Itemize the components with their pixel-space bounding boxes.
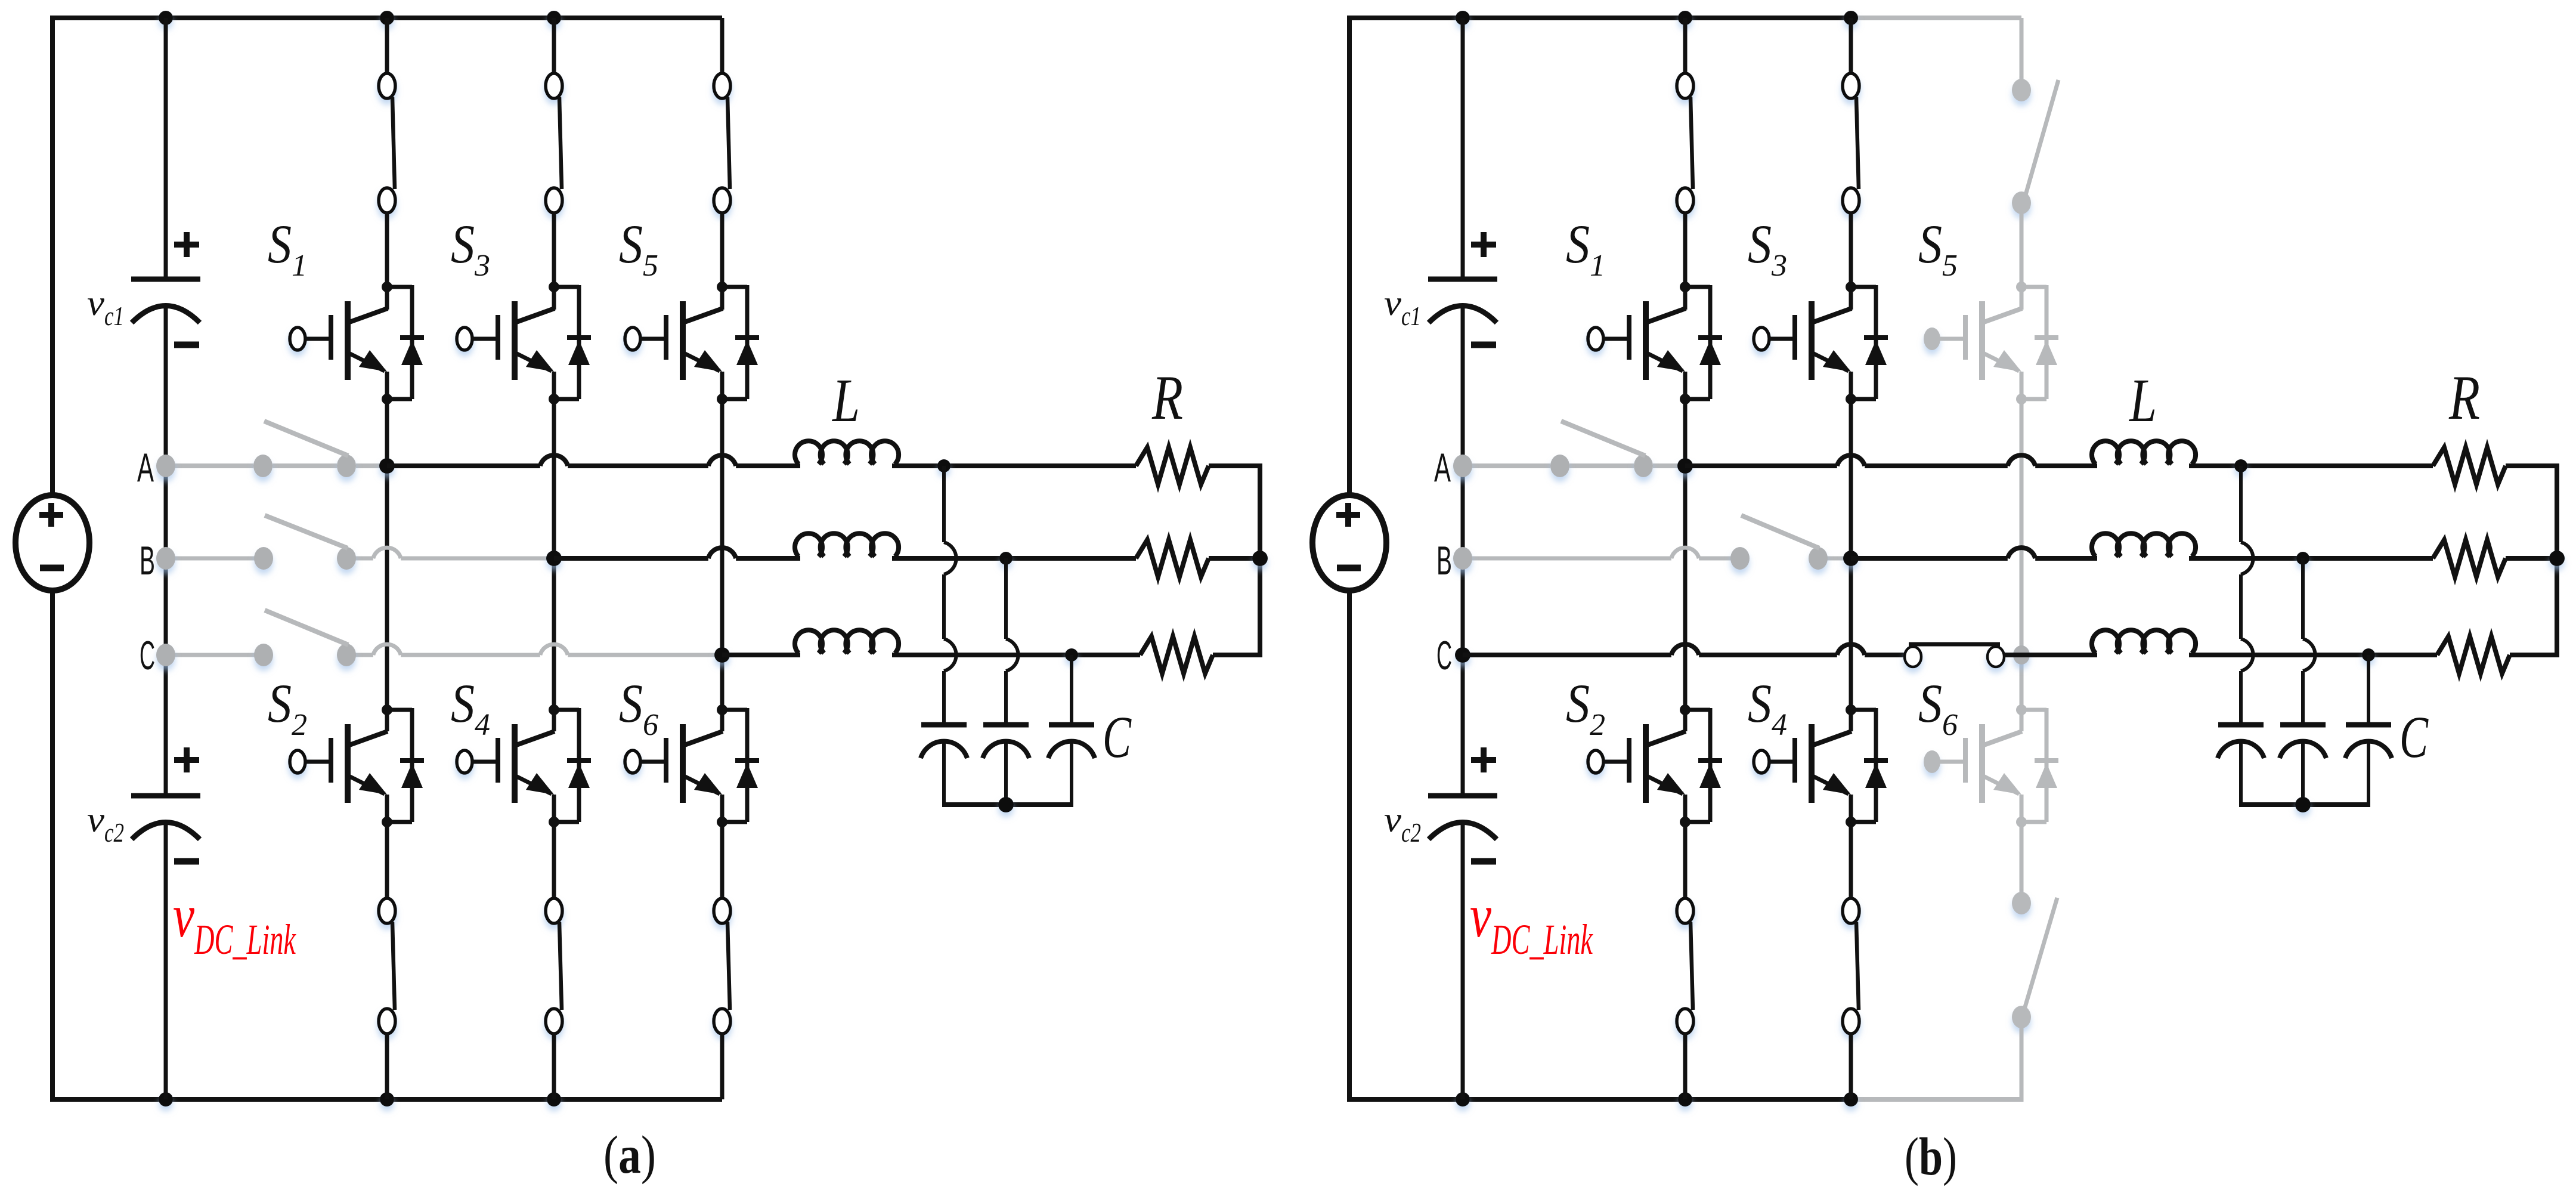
inductor L phase B (b) [2092, 533, 2196, 557]
switch contact lower S6 leg open (b) [2012, 892, 2057, 1028]
junction neutral bus (a) [998, 797, 1014, 812]
svg-text:L: L [2128, 366, 2157, 435]
switch contact lower S6 leg (a) [714, 898, 730, 1034]
junction top rail / S1 leg (a) [380, 11, 394, 25]
wire bottom rail black part (b) [1347, 1097, 1851, 1102]
svg-text:B: B [1436, 538, 1452, 583]
wire phase A grey segment (a) [166, 463, 387, 468]
svg-text:S4: S4 [1748, 673, 1787, 742]
wire top rail (a) [50, 16, 722, 20]
transistor S4 with diode (b) [1754, 704, 1888, 827]
wire cap A to neutral bus (a) [942, 741, 946, 805]
wire neutral bus (b) [2239, 802, 2370, 807]
junction phase A / C-bank drop (b) [2234, 459, 2247, 472]
svg-text:S1: S1 [268, 214, 307, 283]
wire cap A to neutral bus (b) [2239, 741, 2243, 805]
node B label (a) [140, 538, 155, 583]
switch contact upper S3 leg (a) [546, 73, 562, 213]
wire phase B after L (b) [2189, 556, 2433, 561]
junction bottom rail / S2 leg (a) [380, 1092, 394, 1107]
wire S1 leg to collector (a) [385, 212, 389, 310]
wire phase A after L (a) [892, 463, 1136, 468]
junction phase C / S5 leg (a) [714, 647, 730, 663]
inductor L phase A (a) [795, 441, 899, 464]
svg-text:vDC_Link: vDC_Link [1470, 882, 1593, 963]
wire S2 leg emitter down (b) [1683, 795, 1688, 899]
wire phase B after L (a) [892, 556, 1136, 561]
switch contact lower S2 leg (a) [379, 898, 395, 1034]
resistor R phase A (b) [2433, 447, 2506, 484]
svg-text:vc1: vc1 [87, 283, 124, 331]
resistor R phase B (a) [1136, 540, 1209, 577]
label L (b) [2128, 366, 2157, 435]
junction phase C / S5 leg grey crossing (b) [2013, 645, 2030, 665]
wire phase A to load bus (b) [2506, 463, 2559, 468]
svg-text:R: R [1151, 363, 1183, 432]
svg-text:S2: S2 [1566, 673, 1605, 742]
wire DC-link lower (b) [1461, 823, 1465, 1099]
wire S1 leg to collector (b) [1683, 212, 1688, 310]
switch contact upper S5 leg (a) [714, 73, 730, 213]
wire S2 leg to bottom rail (b) [1683, 1033, 1688, 1099]
wire phase C black from DC-link (b) [1463, 644, 1905, 655]
inductor L phase C (b) [2092, 630, 2196, 653]
junction phase A / S1 leg (b) [1677, 458, 1693, 474]
label S1 (a) [268, 214, 307, 283]
wire S4 leg to bottom rail (a) [552, 1033, 556, 1099]
label S5 (a) [619, 214, 658, 283]
svg-text:S3: S3 [1748, 214, 1787, 283]
wire phase C to load bus (a) [1213, 653, 1262, 657]
transistor S5 with diode (a) [625, 282, 759, 404]
wire S3 leg to collector (a) [552, 212, 556, 310]
switch phase B disconnect (b) [1453, 515, 1828, 570]
junction phase B / S3 leg (b) [1843, 551, 1859, 566]
node C label (a) [140, 633, 155, 678]
transistor S3 with diode (a) [457, 282, 591, 404]
inductor L phase B (a) [795, 533, 899, 557]
capacitor C phase C (a) [1048, 725, 1095, 758]
label vDC_Link (a) [173, 882, 296, 963]
svg-text:A: A [137, 445, 154, 490]
wire top rail grey part to S5 leg (b) [1851, 16, 2021, 20]
resistor R phase A (a) [1136, 447, 1209, 484]
wire S5 leg to collector (b) [2020, 212, 2024, 310]
svg-text:C: C [2399, 704, 2429, 770]
capacitor vc2 (a) [131, 747, 200, 861]
wire phase B black segment (a) [554, 548, 800, 558]
wire S5 leg emitter down (b) [2020, 372, 2024, 731]
label L (a) [831, 366, 860, 435]
wire S6 leg to bottom rail (b) [2020, 1027, 2024, 1102]
capacitor vc1 (a) [131, 232, 200, 345]
svg-text:C: C [1436, 633, 1452, 678]
wire S4 leg to bottom rail (b) [1849, 1033, 1853, 1099]
wire S5 leg from top rail (a) [720, 18, 724, 79]
svg-text:L: L [831, 366, 860, 435]
switch phase A disconnect (b) [1453, 421, 1653, 477]
wire S4 leg emitter down (a) [552, 795, 556, 899]
svg-text:A: A [1434, 445, 1451, 490]
wire phase C grey segment (a) [166, 644, 722, 655]
junction load bus / phase B (a) [1252, 551, 1268, 566]
wire S6 leg to bottom rail (a) [720, 1033, 724, 1099]
wire phase A grey segment (b) [1463, 463, 1685, 468]
wire S3 leg from top rail (a) [552, 18, 556, 79]
wire neutral bus (a) [942, 802, 1073, 807]
wire phase C after L (a) [892, 653, 1140, 657]
node A label (a) [137, 445, 154, 490]
wire S4 leg emitter down (b) [1849, 795, 1853, 899]
junction top rail / S3 leg (a) [547, 11, 561, 25]
transistor S5 with diode (b) [1924, 282, 2058, 404]
switch phase C disconnect (a) [156, 610, 356, 666]
switch contact lower S2 leg (b) [1677, 898, 1693, 1034]
junction bottom rail / S4 leg (b) [1844, 1092, 1858, 1107]
svg-text:C: C [140, 633, 155, 678]
wire cap C to neutral bus (b) [2367, 741, 2370, 805]
wire phase B grey segment (a) [166, 548, 554, 558]
junction top rail / S3 leg (b) [1844, 11, 1858, 25]
junction phase C / DC-link midpoint (b) [1455, 647, 1470, 663]
svg-text:vc1: vc1 [1384, 283, 1421, 331]
switch phase B disconnect (a) [156, 515, 356, 570]
wire S1 leg from top rail (b) [1683, 18, 1688, 79]
capacitor C phase A (b) [2218, 725, 2264, 758]
wire phase B black segment (b) [1851, 548, 2097, 558]
wire S3 leg to collector (b) [1849, 212, 1853, 310]
wire DC-link upper (b) [1461, 18, 1465, 277]
node A label (b) [1434, 445, 1451, 490]
label R (b) [2448, 363, 2480, 432]
DC source V (b) [1312, 495, 1386, 591]
junction bottom rail / DC-link (a) [159, 1092, 173, 1107]
transistor S4 with diode (a) [457, 704, 591, 827]
wire C-bank drop A (b) [2241, 466, 2253, 722]
switch contact upper S3 leg (b) [1843, 73, 1859, 213]
junction top rail / DC-link (a) [159, 11, 173, 25]
wire DC-link middle (a) [164, 306, 168, 793]
wire S3 leg from top rail (b) [1849, 18, 1853, 79]
wire cap B to neutral bus (b) [2301, 741, 2305, 805]
junction phase A / C-bank drop (a) [937, 459, 950, 472]
label S1 (b) [1566, 214, 1605, 283]
wire C-bank drop B (b) [2303, 558, 2315, 722]
label vc2 (a) [87, 800, 124, 848]
svg-text:S6: S6 [619, 673, 658, 742]
switch contact upper S1 leg (a) [379, 73, 395, 213]
label S4 (a) [451, 673, 490, 742]
inductor L phase A (b) [2092, 441, 2196, 464]
junction bottom rail / DC-link (b) [1456, 1092, 1470, 1107]
label S6 (a) [619, 673, 658, 742]
resistor R phase C (b) [2437, 636, 2510, 673]
transistor S6 with diode (b) [1924, 704, 2058, 827]
wire source top lead (a) [50, 16, 55, 495]
wire phase B to load bus (b) [2506, 556, 2557, 561]
label vc1 (b) [1384, 283, 1421, 331]
wire C-bank drop B (a) [1006, 558, 1018, 722]
junction phase B / S3 leg (a) [546, 551, 562, 566]
resistor R phase C (a) [1140, 636, 1213, 673]
wire phase A after L (b) [2189, 463, 2433, 468]
wire source bottom lead (b) [1347, 591, 1352, 1099]
label C (a) [1103, 704, 1132, 770]
wire top rail black part (b) [1347, 16, 1851, 20]
switch phase A disconnect (a) [156, 421, 356, 477]
switch contact lower S4 leg (a) [546, 898, 562, 1034]
svg-text:B: B [140, 538, 155, 583]
wire C-bank drop C (a) [1070, 655, 1073, 722]
svg-text:C: C [1103, 704, 1132, 770]
DC source V (a) [16, 495, 89, 591]
wire S5 leg to collector (a) [720, 212, 724, 310]
switch contact upper S5 leg open (b) [2012, 79, 2058, 214]
wire S1 leg emitter down (a) [385, 372, 389, 731]
transistor S2 with diode (a) [290, 704, 424, 827]
label S5 (b) [1918, 214, 1958, 283]
junction phase C / C-bank drop (a) [1065, 648, 1078, 662]
label S2 (b) [1566, 673, 1605, 742]
svg-text:S1: S1 [1566, 214, 1605, 283]
resistor R phase B (b) [2433, 540, 2506, 577]
label vc1 (a) [87, 283, 124, 331]
wire phase B grey segment (b) [1463, 548, 1851, 558]
wire C-bank drop A (a) [944, 466, 956, 722]
wire phase C after L (b) [2189, 653, 2437, 657]
switch contact lower S4 leg (b) [1843, 898, 1859, 1034]
capacitor C phase B (a) [983, 725, 1029, 758]
junction top rail / DC-link (b) [1456, 11, 1470, 25]
wire phase A to load bus (a) [1209, 463, 1262, 468]
wire S5 leg from top rail (b) [2020, 18, 2024, 79]
wire S2 leg emitter down (a) [385, 795, 389, 899]
wire cap C to neutral bus (a) [1070, 741, 1073, 805]
junction phase A / S1 leg (a) [379, 458, 395, 474]
transistor S1 with diode (a) [290, 282, 424, 404]
transistor S2 with diode (b) [1588, 704, 1722, 827]
svg-text:(b): (b) [1905, 1127, 1957, 1186]
svg-text:S6: S6 [1918, 673, 1958, 742]
svg-text:S2: S2 [268, 673, 307, 742]
svg-text:S3: S3 [451, 214, 490, 283]
wire S3 leg emitter down (a) [552, 372, 556, 731]
switch contact upper S1 leg (b) [1677, 73, 1693, 213]
junction phase B / C-bank drop (b) [2296, 552, 2309, 565]
wire phase C black segment (b) [2004, 653, 2097, 657]
capacitor C phase C (b) [2345, 725, 2392, 758]
wire C-bank drop C (b) [2367, 655, 2370, 722]
svg-text:R: R [2448, 363, 2480, 432]
label vc2 (b) [1384, 800, 1421, 848]
wire bottom rail grey part from S6 leg (b) [1851, 1097, 2021, 1102]
transistor S3 with diode (b) [1754, 282, 1888, 404]
node C label (b) [1436, 633, 1452, 678]
svg-text:vc2: vc2 [1384, 800, 1421, 848]
wire S2 leg to bottom rail (a) [385, 1033, 389, 1099]
junction top rail / S1 leg (b) [1678, 11, 1692, 25]
wire phase C to load bus (b) [2510, 653, 2559, 657]
label R (a) [1151, 363, 1183, 432]
capacitor C phase B (b) [2280, 725, 2326, 758]
capacitor vc1 (b) [1428, 232, 1497, 345]
capacitor vc2 (b) [1428, 747, 1497, 861]
node B label (b) [1436, 538, 1452, 583]
label S3 (b) [1748, 214, 1787, 283]
label S4 (b) [1748, 673, 1787, 742]
svg-text:vc2: vc2 [87, 800, 124, 848]
wire cap B to neutral bus (a) [1004, 741, 1008, 805]
junction phase C / C-bank drop (b) [2362, 648, 2375, 662]
junction phase B / C-bank drop (a) [999, 552, 1013, 565]
wire phase B to load bus (a) [1209, 556, 1260, 561]
wire source top lead (b) [1347, 16, 1352, 495]
wire S6 leg emitter down (b) [2020, 795, 2024, 899]
junction neutral bus (b) [2295, 797, 2311, 812]
wire S3 leg emitter down (b) [1849, 372, 1853, 731]
wire phase A black segment (a) [387, 455, 800, 466]
svg-text:(a): (a) [603, 1126, 656, 1185]
wire S1 leg emitter down (b) [1683, 372, 1688, 731]
label S2 (a) [268, 673, 307, 742]
svg-text:vDC_Link: vDC_Link [173, 882, 296, 963]
inductor L phase C (a) [795, 630, 899, 653]
wire bottom rail (a) [50, 1097, 722, 1102]
wire S6 leg emitter down (a) [720, 795, 724, 899]
wire load bus vertical (b) [2555, 463, 2559, 657]
switch phase C closed contact (b) [1905, 644, 2004, 667]
wire DC-link middle (b) [1461, 306, 1465, 793]
caption (b) [1905, 1127, 1957, 1186]
transistor S6 with diode (a) [625, 704, 759, 827]
caption (a) [603, 1126, 656, 1185]
wire DC-link upper (a) [164, 18, 168, 277]
label C (b) [2399, 704, 2429, 770]
wire phase C black segment (a) [722, 653, 800, 657]
label vDC_Link (b) [1470, 882, 1593, 963]
label S3 (a) [451, 214, 490, 283]
junction bottom rail / S2 leg (b) [1678, 1092, 1692, 1107]
wire source bottom lead (a) [50, 591, 55, 1099]
wire S5 leg emitter down (a) [720, 372, 724, 731]
wire load bus vertical (a) [1258, 463, 1262, 657]
junction bottom rail / S4 leg (a) [547, 1092, 561, 1107]
capacitor C phase A (a) [921, 725, 967, 758]
wire DC-link lower (a) [164, 823, 168, 1099]
label S6 (b) [1918, 673, 1958, 742]
wire phase A black segment (b) [1685, 455, 2097, 466]
svg-text:S5: S5 [619, 214, 658, 283]
svg-text:S4: S4 [451, 673, 490, 742]
svg-text:S5: S5 [1918, 214, 1958, 283]
wire S1 leg from top rail (a) [385, 18, 389, 79]
junction load bus / phase B (b) [2549, 551, 2565, 566]
transistor S1 with diode (b) [1588, 282, 1722, 404]
